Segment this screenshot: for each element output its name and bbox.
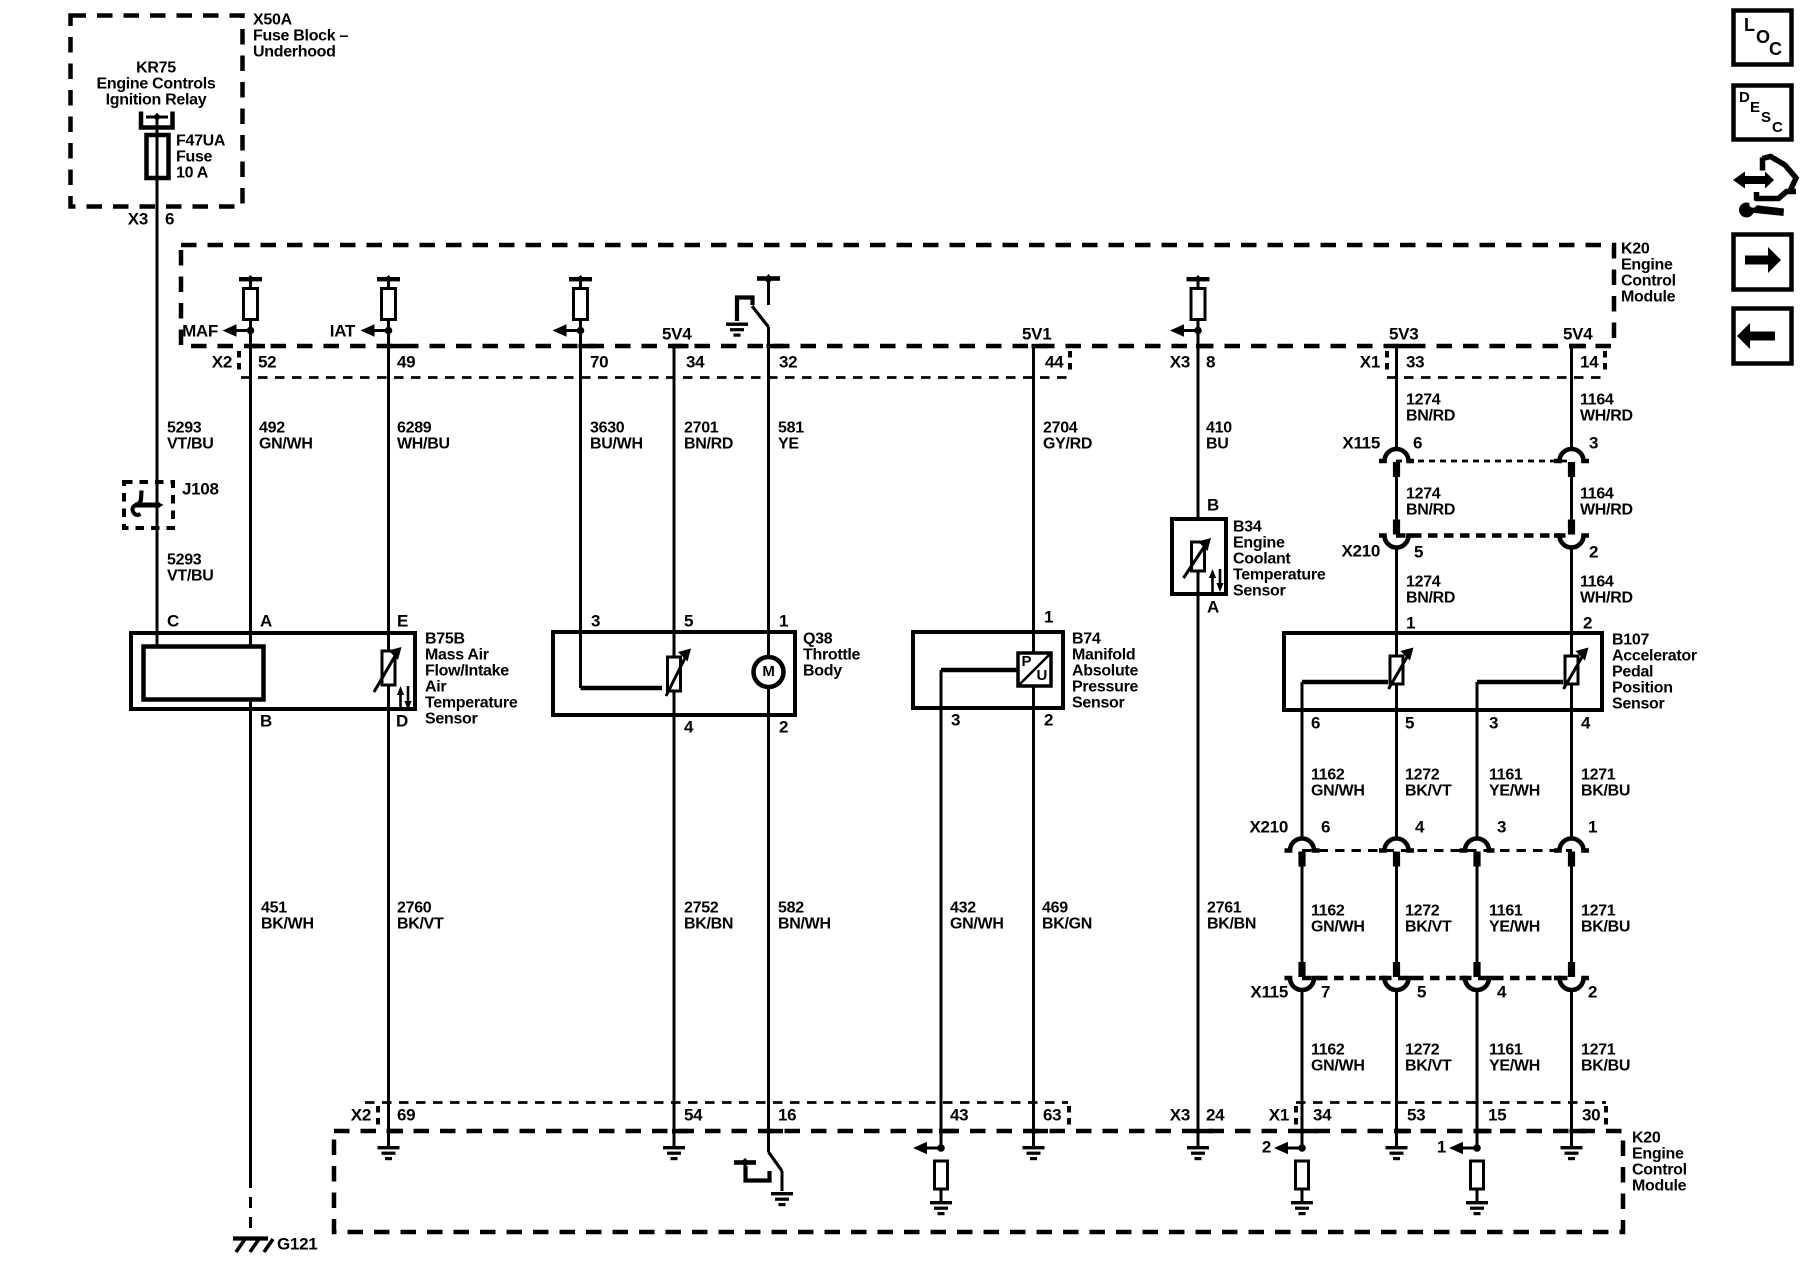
svg-text:G121: G121	[277, 1234, 317, 1253]
svg-text:1161: 1161	[1489, 767, 1523, 784]
svg-text:1274: 1274	[1406, 486, 1441, 503]
svg-text:Temperature: Temperature	[425, 695, 518, 712]
svg-text:Pedal: Pedal	[1612, 664, 1653, 681]
svg-text:1: 1	[779, 611, 788, 630]
connector X1 bracket right (bottom row)	[1604, 1106, 1608, 1129]
svg-text:F47UA: F47UA	[176, 133, 226, 150]
svg-text:6: 6	[1311, 713, 1320, 732]
ECM K20 dashed box (top)	[181, 245, 1614, 346]
wire 1164 between X115 and X210	[1570, 477, 1573, 520]
label G121	[277, 1234, 317, 1253]
label wire 1271 BK/BU (c)	[1581, 1042, 1630, 1075]
switch to ground (internal, pin 16)	[734, 1131, 782, 1191]
wiper Q38	[581, 686, 663, 691]
label pin 1 (B107)	[1406, 613, 1415, 632]
svg-text:2: 2	[1589, 542, 1598, 561]
svg-text:44: 44	[1045, 352, 1064, 371]
label wire 1272 BK/VT (b)	[1405, 903, 1452, 936]
label connector X3 (top)	[1170, 352, 1190, 371]
svg-text:BK/BU: BK/BU	[1581, 1058, 1630, 1075]
svg-text:1164: 1164	[1580, 574, 1614, 591]
svg-text:1274: 1274	[1406, 392, 1441, 409]
label wire 469 BK/GN	[1042, 900, 1092, 933]
svg-text:5: 5	[684, 611, 693, 630]
svg-text:Engine: Engine	[1233, 535, 1285, 552]
pin 3 (X210 lower)	[1497, 817, 1506, 836]
svg-text:7: 7	[1321, 982, 1330, 1001]
label pin 3 (B107)	[1489, 713, 1498, 732]
svg-text:VT/BU: VT/BU	[167, 436, 214, 453]
label MAF	[182, 321, 218, 340]
svg-text:6: 6	[1413, 433, 1422, 452]
svg-text:BK/VT: BK/VT	[1405, 1058, 1452, 1075]
svg-text:Engine: Engine	[1621, 257, 1673, 274]
label pin 5 (B107)	[1405, 713, 1414, 732]
connector X1 plane line (bottom row)	[1296, 1101, 1606, 1104]
svg-text:6289: 6289	[397, 420, 432, 437]
ground (internal, pin 15)	[1466, 1201, 1488, 1215]
wire pin X3-8 to B34 pin B	[1197, 331, 1200, 520]
svg-text:KR75: KR75	[136, 60, 176, 77]
svg-text:3: 3	[1589, 433, 1598, 452]
svg-text:U: U	[1037, 667, 1048, 684]
svg-text:C: C	[1769, 39, 1782, 59]
svg-text:BN/WH: BN/WH	[778, 916, 831, 933]
wire B34 thermistor internal	[1197, 571, 1200, 594]
label connector X1 (bottom row)	[1269, 1105, 1289, 1124]
node X3-8 junction + arrow	[1170, 324, 1202, 337]
resistor pullup pin70 (internal)	[569, 275, 592, 331]
label pin 1 (Q38)	[779, 611, 788, 630]
svg-text:1: 1	[1406, 613, 1415, 632]
svg-text:1271: 1271	[1581, 903, 1616, 920]
label wire 492 GN/WH	[259, 420, 313, 453]
connector X1 bracket (bottom row)	[1294, 1106, 1298, 1129]
connector X210 lower half (wire 1161)	[1460, 839, 1495, 867]
label wire 582 BN/WH	[778, 900, 831, 933]
label pin A (B75B)	[260, 611, 272, 630]
svg-text:IAT: IAT	[330, 321, 356, 340]
svg-text:1272: 1272	[1405, 767, 1440, 784]
node pin 43 + arrow	[913, 1142, 945, 1155]
pin 15	[1488, 1105, 1506, 1124]
svg-text:Module: Module	[1632, 1178, 1687, 1195]
label wire 1272 BK/VT (a)	[1405, 767, 1452, 800]
label pin A (B34)	[1207, 597, 1219, 616]
svg-text:2701: 2701	[684, 420, 719, 437]
svg-text:1164: 1164	[1580, 392, 1614, 409]
svg-text:2760: 2760	[397, 900, 432, 917]
connector X210 upper half (wire 1274)	[1379, 520, 1414, 548]
label KR75 Engine Controls Ignition Relay	[96, 60, 215, 109]
connector X210 lower half (wire 1271)	[1554, 839, 1589, 867]
svg-text:30: 30	[1582, 1105, 1600, 1124]
svg-text:Fuse: Fuse	[176, 149, 213, 166]
svg-text:4: 4	[1415, 817, 1425, 836]
label pin C (B75B)	[167, 611, 179, 630]
pin 2 (X115 lower)	[1588, 982, 1597, 1001]
label pin 3 (B74)	[951, 710, 960, 729]
pin 54	[684, 1105, 703, 1124]
pin 43	[950, 1105, 968, 1124]
label wire 2752 BK/BN	[684, 900, 733, 933]
connector X115 upper half (wire 1274)	[1379, 449, 1414, 477]
ground (internal, pin 34)	[1291, 1201, 1313, 1215]
label wire 1161 YE/WH (a)	[1489, 767, 1540, 800]
svg-text:GN/WH: GN/WH	[1311, 1058, 1365, 1075]
svg-text:16: 16	[778, 1105, 796, 1124]
connector X1 bracket right (top row)	[1603, 351, 1607, 375]
svg-text:5293: 5293	[167, 552, 202, 569]
svg-text:469: 469	[1042, 900, 1068, 917]
label pin 6 (B107)	[1311, 713, 1320, 732]
svg-text:X3: X3	[1170, 352, 1190, 371]
connector X115 lower half (wire 1162)	[1285, 962, 1320, 990]
pin ticks on ECM box edge (bottom)	[387, 1129, 1587, 1134]
svg-text:J108: J108	[182, 479, 219, 498]
connector X115 lower half (wire 1271)	[1554, 962, 1589, 990]
svg-text:D: D	[1739, 89, 1750, 106]
pin 14	[1580, 352, 1599, 371]
svg-text:33: 33	[1406, 352, 1424, 371]
wire 1162 X210 to X115	[1301, 866, 1304, 962]
svg-text:581: 581	[778, 420, 804, 437]
wire 1162 X115 to ECM pin 34	[1301, 990, 1304, 1149]
svg-text:K20: K20	[1632, 1130, 1661, 1147]
label wire 410 BU	[1206, 420, 1232, 453]
resistor pullup IAT (internal)	[377, 275, 400, 331]
pin 33	[1406, 352, 1424, 371]
svg-text:BK/BU: BK/BU	[1581, 919, 1630, 936]
pressure transducer P/U (B74)	[1018, 653, 1051, 686]
svg-text:Throttle: Throttle	[803, 647, 861, 664]
label pin 2 (B107)	[1583, 613, 1592, 632]
ground (internal, pin 53)	[1386, 1146, 1408, 1160]
connector X2 plane line (top row)	[241, 376, 1070, 379]
svg-text:Control: Control	[1632, 1162, 1687, 1179]
svg-text:2752: 2752	[684, 900, 719, 917]
svg-text:O: O	[1756, 27, 1770, 47]
connector X2 bracket (bottom row)	[376, 1106, 380, 1129]
fuse block X50A dashed box	[71, 16, 243, 207]
svg-text:BK/VT: BK/VT	[1405, 783, 1452, 800]
wire 451 B75B pin B to G121	[249, 699, 252, 1236]
svg-text:GN/WH: GN/WH	[1311, 919, 1365, 936]
ground (internal, pin 30)	[1561, 1146, 1583, 1160]
pin 49	[397, 352, 415, 371]
ECM K20 dashed box (bottom)	[334, 1131, 1623, 1232]
connector label X3 pin 6 (fuse block)	[128, 209, 174, 228]
wire 1164 X210 to B107 pin 2	[1570, 547, 1573, 656]
wire 5V4 pin 14 to X115 pin 3	[1570, 346, 1573, 450]
svg-text:BN/RD: BN/RD	[1406, 408, 1455, 425]
label wire 1162 GN/WH (b)	[1311, 903, 1365, 936]
thermistor B34	[1184, 538, 1212, 578]
svg-text:52: 52	[258, 352, 276, 371]
ground (internal, pin 16)	[771, 1192, 793, 1206]
pin ticks on ECM box edge (top)	[249, 344, 1587, 349]
pin 30	[1582, 1105, 1600, 1124]
ground (internal, pin 69)	[378, 1146, 400, 1160]
connector X210 upper half (wire 1164)	[1554, 520, 1589, 548]
node MAF junction + arrow	[223, 324, 255, 337]
svg-text:Absolute: Absolute	[1072, 663, 1138, 680]
label B34 Engine Coolant Temperature Sensor	[1233, 519, 1326, 600]
svg-text:24: 24	[1206, 1105, 1225, 1124]
wire 5V1 pin 44 to B74 pin 1	[1032, 346, 1035, 653]
svg-text:1161: 1161	[1489, 903, 1523, 920]
connector X115 lower half (wire 1272)	[1379, 962, 1414, 990]
svg-text:MAF: MAF	[182, 321, 218, 340]
svg-text:Engine Controls: Engine Controls	[96, 76, 215, 93]
icon DESC box	[1734, 86, 1792, 140]
svg-text:X2: X2	[212, 352, 232, 371]
svg-text:P: P	[1022, 653, 1032, 670]
svg-text:B: B	[260, 711, 272, 730]
label connector X210 (lower)	[1249, 817, 1288, 836]
wire B75B thermistor internal	[387, 685, 390, 709]
svg-text:BK/VT: BK/VT	[1405, 919, 1452, 936]
ground (internal, pin 63)	[1023, 1146, 1045, 1160]
svg-text:GN/WH: GN/WH	[1311, 783, 1365, 800]
svg-text:8: 8	[1206, 352, 1215, 371]
sensor B107 box	[1284, 633, 1602, 710]
svg-text:X2: X2	[351, 1105, 371, 1124]
svg-text:2: 2	[1044, 710, 1053, 729]
wire B74 P/U to pin 2	[1032, 686, 1035, 1146]
svg-text:2: 2	[1583, 613, 1592, 632]
sensor B34 box	[1172, 519, 1226, 594]
label wire 2701 BN/RD	[684, 420, 733, 453]
ground G121 chassis	[233, 1239, 273, 1253]
svg-text:C: C	[167, 611, 179, 630]
svg-text:B107: B107	[1612, 632, 1649, 649]
connector X1 bracket (top row)	[1385, 351, 1389, 375]
svg-text:Pressure: Pressure	[1072, 679, 1138, 696]
pin 16	[778, 1105, 796, 1124]
svg-text:X115: X115	[1342, 433, 1380, 452]
connector X2 bracket right (top row)	[1068, 351, 1072, 375]
svg-text:WH/BU: WH/BU	[397, 436, 450, 453]
svg-text:BN/RD: BN/RD	[1406, 502, 1455, 519]
svg-text:70: 70	[590, 352, 608, 371]
svg-text:2: 2	[1588, 982, 1597, 1001]
svg-text:Control: Control	[1621, 273, 1676, 290]
label pin E (B75B)	[397, 611, 408, 630]
wire pin 15 resistor to ground	[1476, 1189, 1479, 1201]
label wire 1271 BK/BU (a)	[1581, 767, 1630, 800]
svg-text:3: 3	[951, 710, 960, 729]
svg-text:B34: B34	[1233, 519, 1262, 536]
relay KR75 contact	[141, 112, 173, 128]
svg-text:1272: 1272	[1405, 1042, 1440, 1059]
svg-text:Sensor: Sensor	[1612, 696, 1665, 713]
label wire 1164 WH/RD (c)	[1580, 574, 1633, 607]
icon back arrow box	[1734, 309, 1792, 364]
svg-text:43: 43	[950, 1105, 968, 1124]
wire 1161 X210 to X115	[1476, 866, 1479, 962]
svg-text:WH/RD: WH/RD	[1580, 502, 1633, 519]
wire B107 pot2 to pin 4	[1570, 684, 1573, 839]
label wire 581 YE	[778, 420, 804, 453]
wire 5V3 pin 33 to X115 pin 6	[1395, 346, 1398, 450]
svg-text:1274: 1274	[1406, 574, 1441, 591]
svg-text:34: 34	[686, 352, 705, 371]
svg-text:WH/RD: WH/RD	[1580, 590, 1633, 607]
label wire 1274 BN/RD (b)	[1406, 486, 1455, 519]
wire IAT pin 49 to B75B E	[387, 331, 390, 652]
label wire 1271 BK/BU (b)	[1581, 903, 1630, 936]
label wire 2760 BK/VT	[397, 900, 444, 933]
switch to ground (internal, pin 32)	[737, 274, 780, 327]
wire 2760 B75B pin D to ECM pin 69	[387, 709, 390, 1146]
wiper B107 APP2	[1477, 682, 1563, 839]
potentiometer Q38 (TPS)	[666, 649, 691, 697]
icon data link (arrows + vehicle + wrench)	[1733, 157, 1796, 218]
pin 24	[1206, 1105, 1225, 1124]
pin 5 (X115 lower)	[1417, 982, 1426, 1001]
svg-text:4: 4	[684, 717, 694, 736]
svg-text:1271: 1271	[1581, 767, 1616, 784]
label wire 6289 WH/BU	[397, 420, 450, 453]
label wire 1274 BN/RD (c)	[1406, 574, 1455, 607]
svg-text:432: 432	[950, 900, 976, 917]
label pin D (B75B)	[396, 711, 408, 730]
svg-text:BU: BU	[1206, 436, 1229, 453]
label connector X210 (upper)	[1341, 541, 1380, 560]
label wire 1162 GN/WH (c)	[1311, 1042, 1365, 1075]
svg-text:GN/WH: GN/WH	[950, 916, 1004, 933]
pin 7 (X115 lower)	[1321, 982, 1330, 1001]
node pin70 junction + arrow	[553, 324, 585, 337]
wire pin 70 to Q38 pin 3	[579, 331, 582, 689]
svg-text:3630: 3630	[590, 420, 625, 437]
svg-text:YE: YE	[778, 436, 799, 453]
svg-text:Accelerator: Accelerator	[1612, 648, 1697, 665]
svg-text:K20: K20	[1621, 241, 1650, 258]
label connector X2 (bottom row)	[351, 1105, 371, 1124]
svg-text:B75B: B75B	[425, 631, 465, 648]
label wire 1162 GN/WH (a)	[1311, 767, 1365, 800]
svg-text:1: 1	[1588, 817, 1597, 836]
label connector X115 (upper)	[1342, 433, 1380, 452]
label Q38 Throttle Body	[803, 631, 861, 680]
svg-text:GN/WH: GN/WH	[259, 436, 313, 453]
svg-text:1162: 1162	[1311, 903, 1345, 920]
svg-text:15: 15	[1488, 1105, 1506, 1124]
svg-text:X1: X1	[1269, 1105, 1289, 1124]
svg-text:1162: 1162	[1311, 1042, 1345, 1059]
svg-text:Flow/Intake: Flow/Intake	[425, 663, 509, 680]
svg-text:Sensor: Sensor	[1072, 695, 1125, 712]
splice J108 symbol	[132, 491, 163, 515]
svg-text:E: E	[1750, 99, 1760, 116]
svg-text:1161: 1161	[1489, 1042, 1523, 1059]
svg-text:63: 63	[1043, 1105, 1061, 1124]
svg-text:A: A	[260, 611, 272, 630]
label 5V4 (pin 34)	[662, 324, 692, 343]
svg-text:5: 5	[1405, 713, 1414, 732]
svg-text:X3: X3	[1170, 1105, 1190, 1124]
svg-text:2: 2	[779, 717, 788, 736]
svg-text:5V4: 5V4	[662, 324, 692, 343]
ground (internal, pin 54)	[663, 1146, 685, 1160]
svg-text:Underhood: Underhood	[253, 44, 336, 61]
svg-text:X1: X1	[1360, 352, 1380, 371]
label pin 4 (Q38)	[684, 717, 694, 736]
svg-text:Coolant: Coolant	[1233, 551, 1291, 568]
svg-text:3: 3	[1497, 817, 1506, 836]
svg-text:Engine: Engine	[1632, 1146, 1684, 1163]
svg-text:6: 6	[1321, 817, 1330, 836]
svg-text:Position: Position	[1612, 680, 1673, 697]
svg-text:Sensor: Sensor	[1233, 583, 1286, 600]
svg-text:X3: X3	[128, 209, 148, 228]
pin 4 (X210 lower)	[1415, 817, 1425, 836]
icon LOC box	[1734, 11, 1792, 65]
resistor pullup MAF (internal)	[239, 275, 262, 331]
connector X2 bracket right (bottom row)	[1067, 1106, 1071, 1129]
label J108	[182, 479, 219, 498]
svg-text:X115: X115	[1250, 982, 1288, 1001]
label IAT	[330, 321, 356, 340]
svg-text:BK/BN: BK/BN	[684, 916, 733, 933]
svg-text:L: L	[1744, 15, 1755, 35]
svg-text:WH/RD: WH/RD	[1580, 408, 1633, 425]
ground (internal, pin X3-24)	[1187, 1146, 1209, 1160]
label connector X1 (top row)	[1360, 352, 1380, 371]
label wire 451 BK/WH	[261, 900, 314, 933]
pin 3 (X115 upper)	[1589, 433, 1598, 452]
pin 53	[1407, 1105, 1425, 1124]
label pin 3 (Q38)	[591, 611, 600, 630]
svg-text:4: 4	[1581, 713, 1591, 732]
label K20 Engine Control Module (bottom)	[1632, 1130, 1687, 1195]
wire 1271 X210 to X115	[1570, 866, 1573, 962]
actuator Q38 box	[553, 632, 795, 715]
pin 5 (X210 upper)	[1414, 542, 1423, 561]
wire 1272 X210 to X115	[1395, 866, 1398, 962]
svg-text:B74: B74	[1072, 631, 1101, 648]
B75B sensing element box	[144, 647, 264, 700]
label wire 5293 VT/BU (upper)	[167, 420, 214, 453]
pin 70	[590, 352, 608, 371]
svg-text:2: 2	[1262, 1137, 1271, 1156]
pin 69	[397, 1105, 415, 1124]
svg-text:2761: 2761	[1207, 900, 1242, 917]
label B74 Manifold Absolute Pressure Sensor	[1072, 631, 1138, 712]
svg-text:C: C	[1772, 119, 1783, 136]
svg-text:X210: X210	[1341, 541, 1380, 560]
svg-text:1272: 1272	[1405, 903, 1440, 920]
svg-text:Air: Air	[425, 679, 446, 696]
ground (internal, near pin 32)	[726, 323, 748, 337]
svg-text:3: 3	[591, 611, 600, 630]
svg-text:54: 54	[684, 1105, 703, 1124]
sensor B75B box	[131, 633, 415, 709]
svg-text:BN/RD: BN/RD	[1406, 590, 1455, 607]
svg-text:32: 32	[779, 352, 797, 371]
potentiometer B107 APP2	[1564, 648, 1589, 690]
svg-text:E: E	[397, 611, 408, 630]
label connector X2 (top row)	[212, 352, 232, 371]
svg-text:5V3: 5V3	[1389, 324, 1418, 343]
label pin 2 (B74)	[1044, 710, 1053, 729]
label wire 5293 VT/BU (lower)	[167, 552, 214, 585]
wire Q38 pot to pin 4	[673, 691, 676, 1146]
svg-text:BK/WH: BK/WH	[261, 916, 314, 933]
wire B74 pin 3 internal	[941, 670, 1018, 1148]
